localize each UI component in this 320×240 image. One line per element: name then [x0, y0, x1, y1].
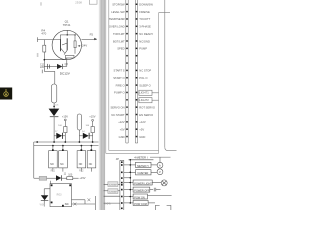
svg-text:GND: GND [139, 135, 145, 139]
svg-text:LIGHT2: LIGHT2 [139, 98, 149, 102]
svg-text:POWER LIGHT: POWER LIGHT [134, 182, 152, 185]
svg-text:GND: GND [119, 135, 125, 139]
svg-text:TOP/LMT: TOP/LMT [113, 32, 125, 36]
svg-text:NC: NC [60, 163, 64, 166]
svg-text:100: 100 [68, 174, 73, 177]
svg-text:NC STOP: NC STOP [139, 69, 151, 73]
svg-text:OVER LOAD: OVER LOAD [109, 25, 125, 29]
svg-text:+12V: +12V [139, 120, 146, 124]
svg-text:LIGHT1: LIGHT1 [139, 91, 149, 95]
svg-text:SLEEP O: SLEEP O [139, 83, 150, 87]
svg-text:NC: NC [65, 202, 69, 206]
svg-text:470: 470 [41, 31, 46, 35]
svg-text:F5: F5 [90, 33, 94, 37]
svg-text:PUMP O: PUMP O [114, 91, 125, 95]
svg-text:METER H: METER H [137, 165, 148, 168]
svg-text:+15V: +15V [89, 115, 95, 119]
svg-text:POW ON: POW ON [134, 196, 145, 199]
svg-text:SPED: SPED [117, 47, 124, 51]
svg-text:START S: START S [114, 69, 125, 73]
svg-text:12V0W: 12V0W [109, 184, 117, 186]
svg-text:A: A [159, 163, 161, 167]
svg-text:FIRE/SE: FIRE/SE [139, 10, 150, 14]
svg-text:DOWN/SW: DOWN/SW [139, 3, 153, 7]
svg-text:23/08: 23/08 [75, 0, 82, 4]
svg-text:+24V: +24V [80, 44, 87, 48]
svg-text:NC START: NC START [111, 113, 125, 117]
svg-text:TOUOTT: TOUOTT [139, 17, 150, 21]
svg-text:LEVEL SW: LEVEL SW [111, 10, 125, 14]
svg-text:DC12V: DC12V [60, 71, 71, 75]
svg-text:EN SERVO: EN SERVO [139, 113, 153, 117]
svg-text:TEMP/SENR: TEMP/SENR [109, 17, 125, 21]
svg-text:12V0W: 12V0W [109, 191, 117, 193]
svg-text:RL2: RL2 [79, 170, 84, 173]
svg-text:4-METER I: 4-METER I [134, 156, 148, 160]
svg-text:NO: NO [50, 163, 54, 166]
svg-text:NO: NO [79, 163, 83, 166]
svg-text:NC/GND: NC/GND [139, 39, 150, 43]
svg-text:ROT SERVO: ROT SERVO [139, 105, 155, 109]
svg-text:+5V: +5V [139, 127, 144, 131]
svg-text:NC: NC [89, 163, 93, 166]
svg-text:NC READY: NC READY [139, 32, 153, 36]
svg-text:BOT/LMT: BOT/LMT [113, 39, 125, 43]
svg-text:POW COM: POW COM [134, 203, 147, 206]
svg-text:POWER OFF: POWER OFF [134, 190, 150, 193]
svg-text:V-METER: V-METER [137, 172, 148, 175]
svg-text:220: 220 [40, 66, 45, 69]
svg-text:SERVO ON: SERVO ON [110, 105, 124, 109]
svg-text:FIRE O: FIRE O [116, 83, 125, 87]
svg-text:TIP41: TIP41 [63, 23, 71, 27]
svg-text:W06: W06 [40, 204, 46, 207]
svg-text:V: V [159, 170, 161, 174]
svg-text:+12V: +12V [118, 120, 125, 124]
svg-text:POL O: POL O [139, 76, 147, 80]
svg-text:+15V: +15V [62, 114, 68, 118]
svg-text:+5V: +5V [120, 127, 125, 131]
svg-text:JP: JP [116, 157, 119, 161]
svg-text:RG3: RG3 [57, 193, 63, 196]
svg-text:PUMP: PUMP [139, 47, 147, 51]
svg-text:+15V: +15V [79, 176, 85, 180]
svg-text:RL1: RL1 [51, 170, 56, 173]
svg-text:3-PHASE: 3-PHASE [139, 25, 151, 29]
svg-text:(+24): (+24) [105, 202, 111, 205]
svg-text:START O: START O [113, 76, 124, 80]
svg-text:STOP/SW: STOP/SW [112, 3, 125, 7]
